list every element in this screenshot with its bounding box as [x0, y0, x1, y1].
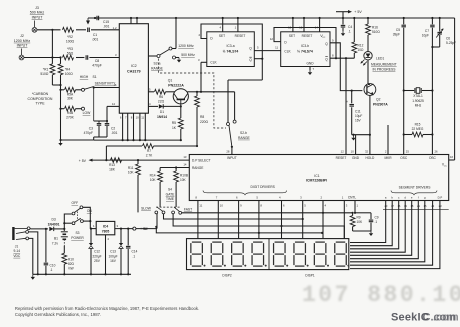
resistor R12 10ohm — [352, 17, 364, 58]
svg-text:7.2v: 7.2v — [52, 241, 59, 245]
display DISP2 DISP1 — [187, 239, 349, 270]
wire IC3-a Q to IC3-b CLK — [254, 50, 280, 52]
wire GND pin IC1 — [355, 135, 357, 155]
svg-text:RESET: RESET — [336, 156, 347, 160]
svg-text:RANGE: RANGE — [238, 136, 251, 140]
transistor Q2 PN2907 — [364, 84, 388, 107]
svg-text:82Ω: 82Ω — [68, 262, 75, 266]
svg-text:100Ω: 100Ω — [66, 40, 75, 44]
svg-text:GND: GND — [306, 62, 314, 66]
svg-text:CA3179: CA3179 — [127, 70, 141, 74]
svg-text:C2: C2 — [111, 127, 115, 131]
svg-text:R16: R16 — [372, 26, 378, 30]
svg-text:TIME: TIME — [166, 197, 175, 201]
svg-text:GATE: GATE — [166, 192, 176, 196]
svg-text:IC3-a: IC3-a — [226, 44, 234, 48]
flip-flop IC3-a 74LS74 — [207, 32, 255, 67]
wire HOLD pin IC1 — [369, 135, 371, 155]
svg-text:C4: C4 — [348, 25, 352, 29]
connector J1 — [13, 227, 30, 258]
svg-text:500 MHz: 500 MHz — [181, 53, 195, 57]
diode D1 1N914 — [148, 102, 180, 119]
svg-text:22Ω: 22Ω — [158, 100, 165, 104]
svg-text:28: 28 — [226, 150, 230, 154]
svg-text:+ 5V: + 5V — [79, 159, 87, 163]
svg-text:25V: 25V — [94, 259, 101, 263]
svg-text:MEASUREMENT: MEASUREMENT — [371, 63, 397, 67]
wire Q3 emitter to gnd bus — [369, 95, 371, 134]
svg-text:10K: 10K — [357, 220, 364, 224]
wire RANGE pin 14 — [160, 167, 189, 169]
svg-text:107 880.10: 107 880.10 — [302, 282, 460, 308]
capacitor C9 — [355, 213, 379, 231]
svg-text:1N914: 1N914 — [157, 115, 167, 119]
svg-text:+ 5V: + 5V — [354, 10, 362, 14]
svg-text:R5: R5 — [172, 121, 176, 125]
svg-text:SET: SET — [219, 34, 225, 38]
svg-text:C13: C13 — [110, 250, 116, 254]
svg-text:5-25pF: 5-25pF — [446, 41, 456, 45]
resistor R2 100ohm — [63, 27, 75, 43]
svg-text:R11: R11 — [128, 166, 134, 170]
wire gate bus 4 — [156, 227, 322, 233]
svg-text:SEGMENT DRIVERS: SEGMENT DRIVERS — [399, 186, 432, 190]
svg-text:2.7K: 2.7K — [146, 154, 153, 158]
node junction J3 line — [51, 29, 53, 31]
wire S2 gang dashed linkage — [159, 59, 227, 129]
svg-text:INPUT: INPUT — [227, 156, 237, 160]
switch S3 power — [63, 201, 92, 240]
LED LED1 — [360, 52, 396, 72]
svg-text:R10B: R10B — [180, 174, 188, 178]
svg-text:S3: S3 — [75, 231, 79, 235]
svg-text:26: 26 — [435, 150, 439, 154]
svg-text:C1: C1 — [93, 33, 97, 37]
svg-text:Q1: Q1 — [168, 79, 173, 83]
capacitor C6 trimmer 5-25pF — [431, 17, 456, 48]
capacitor C10 — [44, 229, 56, 274]
wire IC3-b D feedback — [274, 28, 336, 59]
svg-text:1.90625: 1.90625 — [412, 99, 424, 103]
wire +5V top rail — [88, 17, 455, 19]
svg-text:10pF: 10pF — [422, 34, 429, 38]
svg-text:.001: .001 — [103, 25, 110, 29]
wire IC3-b Qbar node — [330, 57, 354, 59]
wire gate bus 2 — [164, 214, 303, 219]
wire segment driver fan — [350, 201, 386, 243]
wire IC3-b GND pin7 — [309, 67, 311, 71]
node +5V S4 — [133, 214, 157, 231]
switch S4 gate time — [141, 188, 192, 215]
svg-text:39K: 39K — [67, 97, 74, 101]
resistor R16 510ohm — [366, 17, 381, 52]
wire collector to S2-b — [197, 91, 235, 93]
node rail end arrow — [86, 21, 90, 25]
ground power supply — [32, 274, 34, 277]
svg-text:OSC: OSC — [400, 156, 408, 160]
svg-text:C11: C11 — [355, 110, 361, 114]
svg-text:470pF: 470pF — [92, 64, 102, 68]
wire IC2 pin14 — [107, 105, 119, 107]
svg-text:16: 16 — [450, 155, 454, 159]
svg-text:CNTL: CNTL — [348, 195, 357, 199]
svg-text:C8: C8 — [95, 59, 99, 63]
svg-text:D1: D1 — [160, 110, 164, 114]
svg-text:C15: C15 — [103, 20, 109, 24]
svg-text:D3: D3 — [51, 218, 55, 222]
svg-text:100μF: 100μF — [108, 254, 117, 258]
svg-text:IC4: IC4 — [103, 224, 108, 228]
capacitor C14 .1 — [126, 229, 138, 275]
ghost display bleed-through — [302, 282, 460, 308]
svg-text:DIGIT DRIVERS: DIGIT DRIVERS — [251, 185, 276, 189]
svg-text:16V: 16V — [110, 259, 117, 263]
svg-text:XTAL1: XTAL1 — [413, 94, 423, 98]
svg-text:11: 11 — [199, 203, 202, 207]
svg-text:18K: 18K — [109, 168, 116, 172]
svg-text:ON: ON — [87, 209, 93, 213]
op-amp U IC1 ICM7226BIPI — [189, 150, 448, 201]
svg-text:R9: R9 — [357, 216, 361, 220]
capacitor C13 100uF — [108, 229, 123, 275]
regulator IC4 7805 — [90, 221, 149, 274]
svg-text:R8: R8 — [200, 115, 204, 119]
resistor R7 2.7K — [105, 144, 197, 162]
svg-text:MHz: MHz — [415, 104, 422, 108]
svg-text:DISP1: DISP1 — [305, 274, 314, 278]
svg-text:MKR: MKR — [384, 156, 392, 160]
flip-flop IC3-b 74LS74 — [281, 32, 330, 67]
svg-text:10K: 10K — [180, 178, 187, 182]
svg-text:510Ω: 510Ω — [372, 30, 380, 34]
svg-text:POWER: POWER — [71, 236, 84, 240]
connector J3 — [30, 6, 45, 32]
svg-text:100Ω: 100Ω — [65, 72, 74, 76]
capacitor C2 .001 — [99, 121, 118, 137]
connector J2 — [14, 34, 31, 60]
svg-text:HIGH: HIGH — [80, 75, 89, 79]
wire 1200MHz contact to rail — [175, 18, 177, 49]
svg-text:1,2: 1,2 — [113, 26, 117, 30]
svg-text:VDC: VDC — [13, 254, 21, 258]
svg-text:CC: CC — [444, 166, 448, 168]
svg-text:11: 11 — [275, 46, 278, 50]
svg-text:.001: .001 — [111, 131, 118, 135]
svg-text:GND: GND — [352, 156, 360, 160]
svg-text:RESET: RESET — [235, 34, 246, 38]
svg-text:16: 16 — [113, 83, 117, 87]
wire RESET pin IC1 — [345, 58, 347, 154]
ground C4 — [342, 31, 344, 33]
wire CNTL pin — [354, 201, 356, 213]
svg-text:10Ω: 10Ω — [358, 48, 365, 52]
capacitor C15 — [94, 16, 110, 29]
svg-text:LED1: LED1 — [376, 57, 384, 61]
svg-text:1200 MHz: 1200 MHz — [14, 39, 31, 43]
capacitor C4 — [341, 25, 353, 34]
ground Q3 — [353, 136, 355, 138]
svg-text:IN PROGRESS: IN PROGRESS — [373, 68, 397, 72]
svg-text:C12: C12 — [94, 250, 100, 254]
svg-text:500 MHz: 500 MHz — [30, 11, 45, 15]
svg-text:J2: J2 — [20, 34, 24, 38]
svg-text:7805: 7805 — [102, 230, 110, 234]
svg-text:Reprinted with permission from: Reprinted with permission from Radio-Ele… — [15, 306, 199, 311]
wire IC3-a D feedback — [201, 24, 262, 59]
resistor R6 22ohm — [148, 87, 174, 103]
resistor R14 10K — [150, 168, 163, 208]
svg-text:ICM7226BIPI: ICM7226BIPI — [306, 179, 327, 183]
svg-text:½ 74LS74: ½ 74LS74 — [297, 50, 313, 54]
svg-text:10: 10 — [220, 203, 224, 207]
svg-text:9-14: 9-14 — [13, 249, 20, 253]
svg-text:IC1: IC1 — [314, 174, 319, 178]
wire MKR pin IC1 — [387, 125, 389, 155]
svg-text:11: 11 — [141, 116, 144, 120]
resistor R8 220ohm — [195, 92, 209, 147]
wire input ground bus — [59, 84, 61, 86]
svg-text:470pF: 470pF — [84, 131, 93, 135]
svg-text:S2-b: S2-b — [240, 131, 247, 135]
svg-text:TYPE: TYPE — [35, 102, 45, 106]
wire S2-b to IC1 input pin 28 — [231, 147, 233, 155]
svg-text:FAST: FAST — [184, 208, 192, 212]
svg-text:C5: C5 — [396, 28, 400, 32]
svg-text:½W: ½W — [68, 267, 74, 271]
svg-text:S2-a: S2-a — [154, 62, 161, 66]
ground input — [60, 140, 62, 143]
svg-text:*R4: *R4 — [65, 68, 71, 72]
svg-text:PN2222A: PN2222A — [168, 84, 184, 88]
svg-text:C9: C9 — [375, 216, 379, 220]
svg-text:C7: C7 — [425, 29, 429, 33]
svg-text:COMPOSITION: COMPOSITION — [28, 97, 53, 101]
capacitor C3 470pF — [84, 121, 102, 137]
svg-text:OSC: OSC — [429, 156, 437, 160]
svg-text:CLK: CLK — [210, 61, 217, 65]
wire J3 to IC2 — [37, 29, 61, 31]
svg-text:270K: 270K — [66, 116, 75, 120]
svg-text:LOW: LOW — [83, 111, 92, 115]
svg-text:32: 32 — [365, 150, 369, 154]
svg-text:56Ω: 56Ω — [67, 51, 74, 55]
svg-text:12: 12 — [270, 37, 274, 41]
wire digit driver pins to display — [197, 201, 199, 239]
svg-text:.1: .1 — [375, 220, 378, 224]
svg-text:DISP2: DISP2 — [222, 274, 231, 278]
svg-text:1200 MHz: 1200 MHz — [178, 44, 194, 48]
svg-text:1N4001: 1N4001 — [48, 222, 60, 226]
svg-text:RANGE: RANGE — [192, 166, 203, 170]
wire segment number row line — [383, 208, 449, 210]
wire gate bus 3 — [173, 214, 344, 239]
svg-text:.1: .1 — [133, 254, 136, 258]
svg-text:B1: B1 — [54, 237, 58, 241]
resistor R9 10K — [350, 213, 363, 231]
battery B1 7.2V — [52, 229, 68, 253]
svg-text:C6: C6 — [446, 37, 450, 41]
svg-text:PN2907A: PN2907A — [373, 102, 388, 106]
switch S1 sensitivity — [80, 75, 116, 121]
resistor R13 18K — [109, 158, 121, 172]
ground R9 C9 — [353, 230, 371, 232]
svg-text:*CARBON: *CARBON — [32, 92, 49, 96]
resistor R15 22 MEG — [403, 91, 434, 155]
wire Vcc pin IC1 — [449, 159, 455, 161]
svg-text:10: 10 — [136, 116, 140, 120]
switch S2-b range — [227, 80, 251, 148]
wire S1 to IC2 — [94, 87, 120, 89]
svg-text:R10: R10 — [68, 258, 74, 262]
svg-text:D.P SELECT: D.P SELECT — [192, 159, 211, 163]
node +5V arrow top — [336, 10, 362, 25]
svg-text:22 MEG: 22 MEG — [412, 127, 424, 131]
svg-text:SET: SET — [289, 34, 295, 38]
svg-text:220μF: 220μF — [92, 254, 101, 258]
svg-text:R15: R15 — [415, 123, 421, 127]
transistor Q1 PN2222A — [168, 79, 189, 107]
wire IC3-a CLK — [201, 61, 207, 63]
svg-text:HOLD: HOLD — [365, 156, 375, 160]
svg-text:.1: .1 — [50, 268, 53, 272]
svg-text:16V: 16V — [355, 119, 362, 123]
svg-text:D.P: D.P — [438, 196, 443, 200]
wire IC3a Qbar to S2-b — [254, 58, 262, 60]
svg-text:10μF: 10μF — [355, 114, 362, 118]
svg-text:10K: 10K — [128, 171, 135, 175]
svg-text:+ 5V: + 5V — [141, 227, 149, 231]
wire IC3-a top pins — [222, 18, 224, 32]
ground IC3-b — [309, 70, 311, 72]
wire +5V to DP select pin 13 — [79, 155, 190, 163]
wire J1 to D3 — [29, 227, 32, 230]
resistor R3 56ohm — [63, 47, 74, 60]
crystal XTAL1 — [403, 88, 434, 108]
svg-text:INPUT: INPUT — [32, 15, 44, 19]
svg-text:14: 14 — [183, 163, 187, 167]
wire LED to Q3 — [367, 60, 369, 85]
svg-text:R6: R6 — [159, 95, 163, 99]
ground 500MHz contact — [178, 58, 180, 60]
resistor R10B 10K — [174, 168, 188, 208]
wire IC2 bottom pins — [122, 113, 124, 140]
svg-text:*R1: *R1 — [43, 68, 49, 72]
wire caps to ground — [99, 136, 107, 138]
capacitor C12 220uF — [89, 229, 102, 275]
wire IC3-b Q to Q3 base — [330, 43, 362, 91]
svg-text:CC: CC — [322, 37, 326, 39]
svg-text:R13: R13 — [109, 163, 115, 167]
svg-text:13: 13 — [183, 155, 187, 159]
diode D3 1N4001 — [48, 218, 66, 232]
svg-text:.001: .001 — [92, 38, 99, 42]
svg-text:39pF: 39pF — [393, 33, 400, 37]
wire IC3-b top pins — [292, 18, 294, 32]
svg-text:C14: C14 — [132, 250, 138, 254]
svg-text:J1: J1 — [15, 244, 19, 248]
resistor R1 510ohm — [40, 30, 60, 85]
switch S2-a range — [148, 44, 195, 70]
capacitor C8 — [86, 55, 102, 67]
op-amp U IC2 CA3179 — [113, 24, 149, 114]
resistor R4B 270K — [61, 106, 82, 119]
capacitor C1 — [88, 28, 99, 42]
svg-text:Q2: Q2 — [376, 98, 381, 102]
resistor R5A 39K — [61, 87, 82, 100]
svg-text:Copyright Gernsback Publicatio: Copyright Gernsback Publications, Inc., … — [15, 312, 101, 317]
svg-text:25: 25 — [406, 150, 410, 154]
svg-text:½ 74LS74: ½ 74LS74 — [223, 50, 239, 54]
svg-text:R14: R14 — [150, 174, 156, 178]
resistor R4 100ohm — [58, 56, 73, 140]
svg-text:14: 14 — [112, 102, 116, 106]
capacitor C7 10pF — [422, 17, 435, 91]
wire IC2 ground bus — [94, 139, 181, 141]
svg-text:.1: .1 — [348, 30, 351, 34]
svg-text:C3: C3 — [89, 127, 93, 131]
wire J2 to IC2 — [24, 57, 61, 59]
svg-text:.com: .com — [433, 312, 459, 324]
resistor R11 10K — [128, 159, 141, 212]
svg-text:R12: R12 — [358, 44, 364, 48]
svg-text:510Ω: 510Ω — [40, 72, 49, 76]
svg-text:RANGE: RANGE — [151, 66, 164, 70]
resistor R5 1K — [172, 105, 183, 141]
svg-text:S4: S4 — [168, 188, 172, 192]
wire IC2 top pins — [130, 18, 132, 24]
svg-text:10K: 10K — [150, 178, 157, 182]
svg-text:OFF: OFF — [72, 201, 79, 205]
wire power ground bus — [33, 273, 131, 275]
svg-text:INPUT: INPUT — [17, 44, 29, 48]
svg-text:RESET: RESET — [302, 34, 313, 38]
wire gate bus fast — [182, 212, 353, 214]
svg-text:*R2: *R2 — [67, 35, 73, 39]
svg-text:R7: R7 — [147, 149, 151, 153]
wire Q1 collector — [187, 91, 197, 93]
svg-text:SLOW: SLOW — [141, 207, 152, 211]
wire J1 sleeve to ground — [29, 232, 38, 274]
svg-text:S1: S1 — [93, 75, 97, 79]
svg-text:J3: J3 — [35, 6, 39, 10]
svg-text:CLK: CLK — [284, 49, 291, 53]
svg-text:IC2: IC2 — [131, 64, 137, 68]
svg-text:12: 12 — [341, 150, 345, 154]
svg-text:IC3-b: IC3-b — [301, 44, 309, 48]
capacitor C11 10uF — [346, 90, 362, 135]
resistor R10 82ohm — [62, 253, 75, 274]
svg-text:C10: C10 — [50, 263, 56, 267]
svg-text:10: 10 — [351, 150, 355, 154]
svg-text:220Ω: 220Ω — [200, 120, 209, 124]
capacitor C5 39pF — [393, 17, 406, 91]
